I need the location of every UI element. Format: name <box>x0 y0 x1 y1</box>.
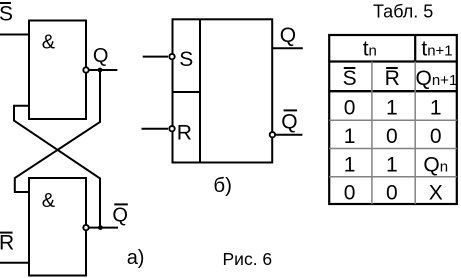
svg-text:Табл. 5: Табл. 5 <box>373 2 433 22</box>
junction node Q <box>98 68 103 73</box>
svg-text:S: S <box>179 48 193 71</box>
table divider under header row 2 <box>329 90 457 92</box>
svg-text:б): б) <box>213 174 232 197</box>
svg-text:1: 1 <box>386 153 398 176</box>
table column divider S/R (gray) <box>371 62 373 205</box>
svg-text:Q: Q <box>112 205 128 227</box>
NAND gate DD1.2 <box>29 178 86 276</box>
inversion bubble Q-bar output <box>270 132 275 137</box>
inversion bubble gate DD1.2 output <box>83 225 88 230</box>
table row divider 1 (gray) <box>329 119 457 121</box>
RS trigger symbol U1 body <box>173 19 273 162</box>
svg-text:R: R <box>385 67 400 90</box>
svg-text:Q: Q <box>280 24 296 47</box>
table column divider R/Q (gray) <box>414 62 416 205</box>
divider control/output sections <box>199 19 201 162</box>
input label S-bar <box>0 3 13 26</box>
svg-text:1: 1 <box>430 97 442 120</box>
wire R input <box>142 128 169 130</box>
svg-text:tn+1: tn+1 <box>421 37 452 60</box>
svg-text:S: S <box>0 3 13 26</box>
junction node Q-bar <box>98 225 103 230</box>
divider S/R sections <box>173 91 201 93</box>
svg-text:1: 1 <box>344 125 356 148</box>
wire Q to lower gate second input <box>15 70 100 192</box>
svg-text:0: 0 <box>344 182 356 205</box>
wire Q output <box>86 69 117 71</box>
NAND gate DD1.1 <box>29 21 86 120</box>
svg-text:Qn+1: Qn+1 <box>416 67 458 90</box>
svg-text:Qn: Qn <box>423 153 448 176</box>
svg-text:Q: Q <box>93 45 109 67</box>
svg-text:0: 0 <box>386 125 398 148</box>
svg-text:&: & <box>42 190 56 212</box>
header cell S-bar <box>343 67 357 90</box>
svg-text:tn: tn <box>363 37 377 60</box>
wire Q output <box>272 47 303 49</box>
svg-text:0: 0 <box>430 125 442 148</box>
header cell R-bar <box>385 67 400 90</box>
table data row 2: 1 0 0 <box>344 125 442 148</box>
svg-text:Q: Q <box>281 110 297 133</box>
svg-text:R: R <box>177 122 192 145</box>
inversion bubble S input <box>169 54 174 59</box>
svg-text:S: S <box>343 67 357 90</box>
input label R-bar <box>0 232 14 255</box>
svg-text:0: 0 <box>386 182 398 205</box>
output label Q-bar (symbol) <box>281 110 297 133</box>
table data row 1: 0 1 1 <box>344 97 442 120</box>
output label Q-bar (gate DD1.2) <box>112 204 128 226</box>
table data row 3: 1 1 Qn <box>344 153 448 176</box>
svg-text:Рис. 6: Рис. 6 <box>223 249 273 269</box>
table row divider 2 (gray) <box>329 148 457 150</box>
wire S-bar input <box>0 34 29 36</box>
svg-text:0: 0 <box>344 97 356 120</box>
svg-text:X: X <box>429 182 443 205</box>
wire feedback Q-bar to upper gate second input <box>14 106 100 228</box>
table data row 4: 0 0 X <box>344 182 443 205</box>
table divider under header row 1 <box>329 60 457 62</box>
wire S input <box>143 56 168 58</box>
svg-text:1: 1 <box>386 97 398 120</box>
inversion bubble R input <box>169 126 174 131</box>
table column divider tn/tn+1 (black, header) <box>414 35 416 62</box>
svg-text:R: R <box>0 232 14 255</box>
svg-text:а): а) <box>127 247 145 269</box>
svg-text:1: 1 <box>344 153 356 176</box>
table row divider 3 (gray) <box>329 176 457 178</box>
svg-text:&: & <box>42 32 56 54</box>
wire Q-bar output <box>276 134 303 136</box>
inversion bubble gate DD1.1 output <box>83 67 88 72</box>
wire R-bar input <box>0 262 29 264</box>
truth table outer border <box>329 35 457 204</box>
wire Q-bar output <box>86 227 118 229</box>
